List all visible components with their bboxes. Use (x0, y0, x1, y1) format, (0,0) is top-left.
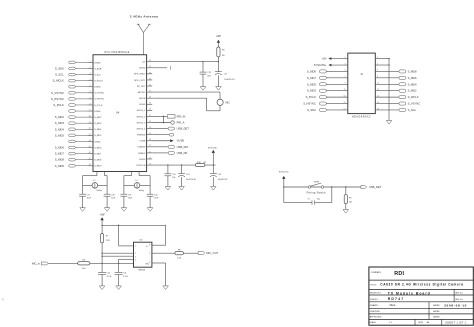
svg-text:10u: 10u (317, 198, 320, 200)
svg-text:S_MD8: S_MD8 (408, 69, 417, 73)
svg-text:S_MD4: S_MD4 (55, 127, 65, 131)
svg-text:+5V: +5V (100, 214, 105, 217)
svg-text:10uF/16.3V: 10uF/16.3V (224, 79, 235, 81)
svg-text:S_SCL: S_SCL (408, 108, 417, 112)
svg-text:Poring Switch: Poring Switch (307, 191, 327, 195)
svg-text:REV 1.0: REV 1.0 (455, 299, 463, 301)
svg-text:DGND: DGND (139, 159, 146, 161)
svg-text:18: 18 (89, 164, 91, 166)
svg-text:S_MD8: S_MD8 (55, 158, 65, 162)
svg-text:36: 36 (149, 60, 151, 62)
svg-text:6: 6 (135, 256, 136, 258)
svg-text:VUSB: VUSB (177, 139, 185, 143)
svg-text:SYSCON+: SYSCON+ (279, 172, 290, 174)
svg-text:6: 6 (90, 91, 91, 93)
svg-text:20: 20 (149, 157, 151, 159)
svg-text:SIZE: SIZE (418, 322, 423, 324)
svg-text:1: 1 (345, 57, 346, 59)
svg-text:4.7uF: 4.7uF (107, 276, 113, 278)
svg-text:S_MD2: S_MD2 (408, 89, 417, 93)
svg-text:PIR_IN: PIR_IN (177, 114, 186, 118)
svg-text:S_MD5: S_MD5 (307, 82, 316, 86)
svg-text:7: 7 (345, 76, 346, 78)
svg-text:USBDM: USBDM (138, 147, 146, 149)
svg-text:25: 25 (149, 127, 151, 129)
svg-text:USB_DM: USB_DM (177, 145, 189, 149)
svg-text:2.4GHz Antenna: 2.4GHz Antenna (130, 15, 159, 19)
svg-text:31: 31 (149, 91, 151, 93)
svg-text:S_MD4: S_MD4 (408, 82, 417, 86)
svg-text:10uHy: 10uHy (96, 190, 102, 192)
svg-text:S_SDA: S_SDA (55, 66, 64, 70)
svg-text:S_WCLK: S_WCLK (53, 79, 64, 83)
svg-text:DGND: DGND (94, 62, 101, 64)
svg-text:S_MD2: S_MD2 (55, 115, 65, 119)
svg-text:SPK_OUT1: SPK_OUT1 (134, 80, 146, 82)
svg-text:C20: C20 (154, 194, 157, 196)
svg-text:S_MD2: S_MD2 (94, 117, 102, 119)
svg-text:33: 33 (149, 78, 151, 80)
svg-text:U4: U4 (116, 111, 120, 115)
svg-text:10uHy: 10uHy (139, 190, 145, 192)
svg-text:C17: C17 (87, 194, 90, 196)
svg-text:S_VSYNC: S_VSYNC (408, 102, 421, 106)
svg-text:+5V: +5V (142, 62, 146, 64)
svg-text:S_WCLK: S_WCLK (94, 80, 103, 82)
svg-text:S_MD4: S_MD4 (94, 129, 102, 131)
svg-text:CHECKED: CHECKED (370, 311, 381, 313)
svg-text:S_PCLK: S_PCLK (94, 105, 103, 107)
svg-text:1M: 1M (349, 201, 352, 203)
svg-text:S_MD9: S_MD9 (307, 69, 316, 73)
svg-text:11: 11 (89, 122, 91, 124)
svg-text:APPROVED: APPROVED (370, 315, 382, 318)
svg-text:1: 1 (149, 253, 150, 255)
svg-text:MICINC: MICINC (138, 92, 146, 94)
svg-text:17: 17 (344, 108, 346, 110)
svg-text:C14: C14 (186, 174, 189, 176)
svg-text:12: 12 (89, 128, 91, 130)
svg-text:S_MD5: S_MD5 (94, 135, 102, 137)
svg-text:S_HSYNC: S_HSYNC (51, 97, 64, 101)
svg-text:21: 21 (149, 151, 151, 153)
svg-text:SYSCON+: SYSCON+ (208, 148, 218, 150)
svg-text:+5V: +5V (322, 57, 327, 61)
svg-text:SCALE: SCALE (369, 321, 376, 324)
svg-text:DGND: DGND (139, 68, 146, 70)
svg-text:DATED: DATED (433, 315, 440, 318)
svg-text:Albert: Albert (389, 304, 395, 307)
svg-text:PIR_A: PIR_A (177, 121, 185, 125)
svg-text:DGND: DGND (94, 111, 101, 113)
svg-text:4.7uF: 4.7uF (123, 276, 129, 278)
svg-text:GPIO4_4: GPIO4_4 (136, 128, 146, 130)
svg-text:DATED: DATED (433, 304, 440, 307)
svg-text:S_MD6: S_MD6 (55, 146, 65, 150)
svg-text:USB_DET: USB_DET (369, 185, 382, 189)
svg-text:1: 1 (90, 61, 91, 63)
svg-text:14: 14 (89, 140, 91, 142)
svg-text:23: 23 (149, 139, 151, 141)
svg-text:S_MD9: S_MD9 (55, 164, 65, 168)
svg-text:S_MD3: S_MD3 (94, 123, 102, 125)
svg-text:SPK_GND2: SPK_GND2 (134, 74, 146, 76)
svg-text:SP_OUT: SP_OUT (137, 86, 146, 88)
svg-text:MICIN: MICIN (139, 98, 146, 100)
svg-text:10: 10 (89, 116, 91, 118)
svg-text:NE555: NE555 (138, 269, 145, 271)
svg-text:C19: C19 (128, 194, 131, 196)
svg-text:S_MD5: S_MD5 (55, 133, 65, 137)
svg-text:3: 3 (90, 73, 91, 75)
svg-text:GPIO4_2: GPIO4_2 (136, 116, 146, 118)
svg-text:DVC-7004-MODULE: DVC-7004-MODULE (105, 52, 130, 54)
svg-text:S_MD7: S_MD7 (307, 76, 316, 80)
svg-text:S_VSYNC: S_VSYNC (94, 93, 104, 95)
svg-text:USB_DP: USB_DP (177, 151, 188, 155)
svg-text:9: 9 (345, 83, 346, 85)
svg-text:S_PCLK: S_PCLK (53, 103, 64, 107)
svg-text:S_MD7: S_MD7 (55, 152, 65, 156)
svg-text:13: 13 (89, 134, 91, 136)
svg-text:S_VSYNC: S_VSYNC (51, 91, 64, 95)
svg-text:28: 28 (149, 109, 151, 111)
svg-text:2: 2 (90, 67, 91, 69)
svg-text:RD747: RD747 (388, 297, 405, 301)
svg-text:+5V: +5V (216, 35, 221, 38)
svg-text:MIC_OUT: MIC_OUT (206, 251, 218, 255)
svg-text:5: 5 (345, 70, 346, 72)
svg-text:S_SDA: S_SDA (307, 108, 316, 112)
svg-text:S_MD7: S_MD7 (94, 153, 102, 155)
svg-text:3: 3 (345, 63, 346, 65)
svg-text:PCB NO:: PCB NO: (370, 299, 379, 301)
svg-text:104: 104 (172, 177, 175, 179)
svg-text:10uF/16.3V: 10uF/16.3V (186, 179, 197, 181)
svg-text:17: 17 (89, 158, 91, 160)
svg-text:32: 32 (149, 84, 151, 86)
svg-text:CA630 SR 2.4G Wireless Digital: CA630 SR 2.4G Wireless Digital Camera (380, 283, 463, 287)
svg-text:4: 4 (149, 262, 150, 264)
svg-text:COMPANY:: COMPANY: (371, 271, 382, 274)
svg-text:15: 15 (89, 146, 91, 148)
svg-text:S_WCLK: S_WCLK (408, 95, 419, 99)
svg-text:TX Module Board: TX Module Board (388, 291, 431, 295)
svg-text:S_MD3: S_MD3 (307, 89, 316, 93)
svg-text:REV 1.0: REV 1.0 (455, 293, 463, 295)
svg-text:2.2K: 2.2K (177, 258, 182, 260)
svg-text:C13: C13 (218, 174, 221, 176)
svg-text:DGND: DGND (94, 87, 101, 89)
svg-text:2: 2 (135, 253, 136, 255)
svg-text:DATED: DATED (433, 310, 440, 313)
svg-text:S_MD9: S_MD9 (94, 166, 102, 168)
svg-text:2.2K: 2.2K (106, 240, 111, 242)
svg-text:4: 4 (90, 79, 91, 81)
svg-text:GPIO4_3: GPIO4_3 (136, 122, 146, 124)
svg-text:SYSCON: SYSCON (136, 165, 145, 167)
svg-text:C15: C15 (172, 174, 175, 176)
svg-text:3: 3 (135, 260, 136, 262)
svg-text:8: 8 (90, 103, 91, 105)
svg-text:S_HSYNC: S_HSYNC (94, 99, 105, 101)
svg-text:S_SCL: S_SCL (55, 73, 64, 77)
svg-text:34: 34 (149, 72, 151, 74)
svg-text:10uF/16.3V: 10uF/16.3V (218, 179, 229, 181)
svg-text:S_MD8: S_MD8 (94, 160, 102, 162)
svg-text:PWR: PWR (314, 181, 320, 183)
svg-text:8: 8 (149, 245, 150, 247)
svg-text:S_MD3: S_MD3 (55, 121, 65, 125)
svg-text:35: 35 (149, 66, 151, 68)
svg-text:S_PCLK: S_PCLK (306, 95, 317, 99)
svg-text:S_MD6: S_MD6 (94, 147, 102, 149)
svg-text:DGND: DGND (139, 104, 146, 106)
svg-text:USBDP: USBDP (138, 153, 146, 155)
svg-text:DRAWN: DRAWN (370, 304, 378, 307)
svg-text:HEADER9X2: HEADER9X2 (352, 115, 371, 118)
svg-text:29: 29 (149, 103, 151, 105)
svg-text:9: 9 (90, 109, 91, 111)
svg-text:26: 26 (149, 121, 151, 123)
svg-text:GPIO4_1: GPIO4_1 (136, 110, 146, 112)
svg-text:S_SDA: S_SDA (94, 67, 102, 70)
svg-text:11: 11 (344, 89, 346, 91)
svg-text:7: 7 (90, 97, 91, 99)
svg-text:30: 30 (149, 97, 151, 99)
svg-text:MIC: MIC (225, 101, 230, 104)
svg-text:MODEL NO:: MODEL NO: (370, 293, 382, 295)
svg-text:C10: C10 (107, 273, 110, 275)
svg-text:16: 16 (89, 152, 91, 154)
svg-text:RDI: RDI (394, 271, 404, 277)
svg-text:S_SCL: S_SCL (94, 74, 102, 76)
svg-text:TITLE:: TITLE: (370, 284, 377, 286)
svg-text:C18: C18 (111, 194, 114, 196)
svg-text:SYSCON+: SYSCON+ (314, 63, 327, 67)
svg-text:S_HSYNC: S_HSYNC (303, 102, 316, 106)
svg-text:5: 5 (135, 246, 136, 248)
svg-text:USB_DET: USB_DET (177, 127, 190, 131)
svg-text:15: 15 (344, 102, 346, 104)
svg-text:13: 13 (344, 95, 346, 97)
svg-text:S_MD6: S_MD6 (408, 76, 417, 80)
svg-text:V+: V+ (146, 246, 148, 248)
svg-text:27: 27 (149, 115, 151, 117)
svg-text:5: 5 (90, 85, 91, 87)
svg-text:C11: C11 (123, 273, 126, 275)
svg-text:MIC_in: MIC_in (32, 262, 41, 266)
svg-text:22: 22 (149, 145, 151, 147)
svg-text:DGND: DGND (94, 141, 101, 143)
svg-text:24: 24 (149, 133, 151, 135)
svg-text:2008-08-10: 2008-08-10 (444, 303, 467, 307)
svg-text:19: 19 (149, 163, 151, 165)
svg-text:PWRSW: PWRSW (137, 135, 146, 137)
svg-text:SHEET 1 OF 1: SHEET 1 OF 1 (445, 322, 466, 324)
svg-text:VUSB: VUSB (140, 141, 146, 143)
